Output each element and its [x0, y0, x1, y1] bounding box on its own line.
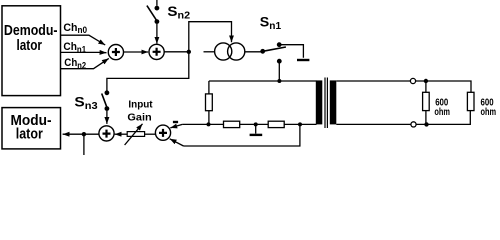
node top rail [424, 79, 428, 83]
label Sn1 [260, 15, 282, 32]
demodulator box [2, 6, 61, 96]
wire bus corner down to resistor R3 [208, 81, 210, 94]
summer U4 (difference) [155, 125, 170, 140]
resistor R4 (horizontal) [224, 121, 240, 127]
label 600 ohm (R1) [434, 96, 450, 118]
wire R1 stubs [425, 81, 427, 124]
label Sn3 [74, 95, 98, 112]
wire upper input into U4 (minus) [170, 124, 182, 128]
label Chn0 [63, 22, 87, 35]
resistor R3 (vertical) [206, 94, 213, 111]
resistor R5 (horizontal) [268, 121, 284, 127]
wire Chn1 to summer [61, 51, 107, 53]
terminal (bottom) [411, 122, 416, 127]
wire top right rail [336, 81, 471, 92]
attenuator (input gain) [125, 124, 145, 145]
termination stub (center) [255, 124, 257, 133]
summer U3 (to modulator) [99, 126, 114, 141]
switch Sn1 [260, 42, 286, 63]
modulator box [2, 108, 61, 149]
termination bar (Sn1) [297, 59, 309, 61]
summer U1 (channel sum) [108, 45, 123, 60]
node J1 [187, 50, 191, 54]
transformer T2 left winding [316, 80, 323, 124]
wire top bus to transformer T2 [209, 80, 317, 82]
wire U3 to modulator [63, 133, 99, 135]
svg-text:lator: lator [16, 126, 43, 143]
label Input Gain [127, 98, 153, 123]
wire U1 to U2 [124, 51, 149, 53]
wire lower return line [184, 124, 300, 146]
label Chn2 [64, 57, 86, 70]
wire J1 up and over into transformer T1 top [189, 22, 232, 52]
node bottom rail [424, 122, 428, 126]
svg-text:lator: lator [17, 37, 43, 54]
wire Sn1 bottom contact down to bus [278, 63, 280, 81]
node B [298, 122, 302, 126]
wire bottom right rail [336, 111, 470, 125]
wire U4 to attenuator [145, 133, 156, 135]
node on modulator wire [82, 132, 86, 136]
terminal (top) [410, 78, 415, 83]
wire Sn3 to summer U3 [106, 111, 108, 124]
resistor R2 600 ohm [467, 92, 474, 110]
wire Chn0 to summer [61, 35, 105, 45]
resistor R1 600 ohm [423, 92, 430, 110]
transformer T2 right winding [330, 80, 337, 124]
wire Sn1 top contact to termination [281, 45, 303, 58]
wire upper bottom line [182, 123, 316, 125]
minus sign at U4 [173, 121, 178, 123]
switch Sn2 [147, 0, 159, 24]
svg-text:ohm: ohm [481, 106, 497, 118]
wire U2 to node J1 [164, 51, 189, 53]
wire R3 to node A [208, 111, 210, 125]
label Sn2 [167, 4, 190, 21]
summer U2 (noise inject) [149, 44, 164, 59]
wire node down off canvas [83, 134, 85, 155]
svg-text:Input: Input [128, 98, 153, 110]
wire lower input into U4 [170, 139, 184, 146]
svg-text:ohm: ohm [434, 106, 450, 118]
label Chn1 [63, 41, 86, 54]
transformer T1 (hybrid, two circles) [204, 43, 263, 60]
wire attenuator to U3 [115, 133, 128, 135]
node A [207, 122, 211, 126]
switch Sn3 [102, 90, 110, 111]
label 600 ohm (R2) [481, 96, 497, 118]
node on bus under Sn1 [277, 79, 281, 83]
wire Sn2 to summer U2 [156, 24, 158, 44]
wire Chn2 to summer [61, 58, 109, 68]
transformer T2 core [325, 78, 327, 129]
node at termination stub [254, 122, 258, 126]
termination bar (center) [250, 134, 263, 136]
wire Sn3 feed from J1 [107, 52, 189, 91]
svg-text:Gain: Gain [127, 111, 151, 123]
